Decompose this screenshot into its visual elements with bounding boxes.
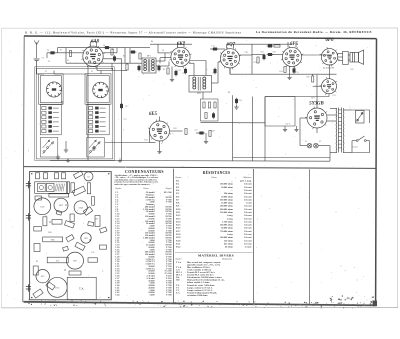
table divider 1 xyxy=(173,169,175,303)
part x3 xyxy=(56,210,62,215)
svg-text:C.S.: C.S. xyxy=(91,252,95,254)
svg-text:M2: M2 xyxy=(95,219,98,221)
svg-text:C2: C2 xyxy=(47,50,50,52)
antenna series capacitor C1 xyxy=(34,59,40,74)
svg-text:300.000 ohms: 300.000 ohms xyxy=(220,209,233,211)
vertical junction wire xyxy=(65,48,67,64)
stub to 6F5 top xyxy=(290,43,292,45)
AVC line xyxy=(201,122,266,124)
stub to bus xyxy=(159,58,161,64)
svg-text:V2: V2 xyxy=(319,141,321,143)
6E5 left wire ext xyxy=(150,142,156,144)
svg-text:1.500 ohms: 1.500 ohms xyxy=(222,221,233,223)
frame right border xyxy=(375,39,378,306)
cathode wire xyxy=(171,67,173,78)
svg-text:C30: C30 xyxy=(272,51,275,53)
rect above TA xyxy=(69,271,81,275)
6F5 top pin2 xyxy=(295,42,297,48)
chassis tube 6Q7 xyxy=(74,201,87,214)
lamp wire 2 xyxy=(318,145,330,147)
vertical to coil 2 xyxy=(129,48,131,64)
resistor R11 xyxy=(257,57,259,63)
box1 to switch xyxy=(87,135,89,138)
antenna to coil box link xyxy=(37,73,44,75)
mains wiring right xyxy=(352,110,370,123)
outer wiring loop 2 xyxy=(35,67,115,161)
tuning gang block xyxy=(35,182,67,194)
6K7 top pin2 xyxy=(183,42,185,48)
gnd wire det xyxy=(205,133,207,139)
coupling wire xyxy=(270,54,282,56)
svg-text:1/4 watt: 1/4 watt xyxy=(244,218,252,220)
osc stub down xyxy=(111,63,113,70)
svg-text:500.000 ohms: 500.000 ohms xyxy=(220,237,233,239)
wire up to bus xyxy=(157,44,159,53)
left can low xyxy=(33,266,38,275)
chassis tube 5Y3 xyxy=(47,277,67,297)
6A8 pin wire down xyxy=(96,66,98,71)
svg-text:Secteur: Secteur xyxy=(352,147,358,149)
stub xyxy=(189,62,194,64)
coil box 2 frame xyxy=(85,74,111,104)
stub down xyxy=(46,53,48,58)
left connector stub 2 xyxy=(26,213,31,220)
flat rect under gang xyxy=(49,194,69,197)
trimmer row L2-3 xyxy=(89,116,106,119)
6A8 top link xyxy=(91,41,97,43)
svg-text:Lampe cadran 6,3 V. 0,3 A.: Lampe cadran 6,3 V. 0,3 A. xyxy=(187,289,213,292)
chassis ground bus xyxy=(50,159,330,162)
6A8 top pin wire 2 xyxy=(96,42,98,47)
primary tap top xyxy=(330,108,337,110)
6A8 plate wire xyxy=(103,52,117,54)
svg-text:1/4 watt: 1/4 watt xyxy=(244,215,252,217)
vertical to B+ xyxy=(251,45,253,75)
scan speckle bottom xyxy=(28,295,377,308)
svg-text:Rappel: Rappel xyxy=(165,188,172,190)
svg-text:C17: C17 xyxy=(123,119,126,121)
output transformer xyxy=(338,51,348,64)
svg-text:C14: C14 xyxy=(211,46,214,48)
svg-text:6E5: 6E5 xyxy=(149,112,158,117)
part x9 xyxy=(63,246,69,251)
stub down xyxy=(299,118,301,128)
svg-text:C33: C33 xyxy=(332,95,335,97)
wire to coil box1 top xyxy=(54,73,88,75)
dial drive xyxy=(84,172,93,181)
can D xyxy=(62,173,66,179)
6K7 aux wire xyxy=(160,57,171,59)
6F5 top pin xyxy=(287,42,289,48)
svg-text:Lampe cadran 6,3 V. 0,3 A.: Lampe cadran 6,3 V. 0,3 A. xyxy=(187,286,213,289)
trimmer row L1-1 xyxy=(42,107,59,110)
svg-text:25.000 ohms: 25.000 ohms xyxy=(221,203,233,205)
resistor R16 xyxy=(312,76,314,82)
link R6 xyxy=(122,70,128,72)
svg-text:T1: T1 xyxy=(45,71,47,73)
svg-text:5Y3: 5Y3 xyxy=(55,286,60,289)
svg-text:R12: R12 xyxy=(173,128,176,130)
can B xyxy=(44,173,48,179)
capacitor C24 xyxy=(235,98,237,105)
heater wiring loop xyxy=(265,97,295,127)
left connector stub 3 xyxy=(26,284,31,291)
svg-text:R4: R4 xyxy=(151,41,153,43)
svg-text:H.P.: H.P. xyxy=(350,69,354,71)
short top wire xyxy=(137,47,150,49)
svg-text:1/4 watt: 1/4 watt xyxy=(244,206,252,208)
bus terminal b xyxy=(119,160,121,162)
wave switch box 2 xyxy=(87,138,105,158)
6E5 right wire xyxy=(170,130,183,132)
frame top border xyxy=(24,36,377,39)
coil L2 xyxy=(93,82,109,98)
resistor R13 top xyxy=(274,45,280,47)
svg-text:ajustables (ondes O.C., P.O.,: ajustables (ondes O.C., P.O., G.O.) xyxy=(187,263,220,266)
svg-text:P 700: P 700 xyxy=(166,295,172,297)
5Y3 left wire xyxy=(300,117,307,119)
svg-text:C17: C17 xyxy=(125,106,128,108)
6Q7 plate wire xyxy=(240,54,253,56)
6A8 grid wire xyxy=(64,52,84,54)
page edge top xyxy=(2,27,399,29)
tube 6K7 xyxy=(169,46,191,68)
HT wire to 5Y3 xyxy=(316,74,318,108)
wave switch box 1 xyxy=(40,138,58,158)
frame left border xyxy=(23,36,24,302)
angled part top right xyxy=(74,171,83,179)
rect bobinage xyxy=(47,257,68,263)
svg-text:1/4 watt: 1/4 watt xyxy=(244,228,252,230)
bus ground 1 xyxy=(56,155,60,159)
scan noise speckle xyxy=(2,40,374,299)
ot to spk xyxy=(348,54,350,56)
svg-text:Repère: Repère xyxy=(175,259,182,261)
svg-text:excitation 1.800 ohms: excitation 1.800 ohms xyxy=(187,295,208,297)
svg-text:500.000 ohms: 500.000 ohms xyxy=(220,225,233,227)
wire up xyxy=(116,48,118,53)
resistor R8 xyxy=(208,102,210,108)
svg-text:1/4 watt: 1/4 watt xyxy=(244,187,252,189)
svg-text:H.P.: H.P. xyxy=(176,280,180,282)
svg-text:Valeur: Valeur xyxy=(143,188,149,190)
mains wiring bottom xyxy=(352,146,370,153)
6K7 top pin xyxy=(177,42,179,48)
wire left of socket xyxy=(313,85,322,87)
socket down wire xyxy=(328,94,330,97)
svg-text:1/2 watt: 1/2 watt xyxy=(244,221,252,223)
trimmer row L2-5 xyxy=(89,125,106,128)
svg-text:C13: C13 xyxy=(220,57,223,59)
trimmer row L1-4 xyxy=(42,120,59,123)
table divider 2 xyxy=(253,169,255,304)
6F5 cathode ground xyxy=(287,75,291,79)
svg-text:E1: E1 xyxy=(36,261,38,263)
svg-text:Désignation: Désignation xyxy=(221,258,232,261)
capacitor C5 xyxy=(113,55,115,62)
page edge left xyxy=(1,28,3,308)
6A8 screen wire xyxy=(103,58,121,60)
MF2 into det block xyxy=(202,92,204,99)
part x1 xyxy=(35,196,42,200)
5Y3 to transformer xyxy=(327,114,337,116)
sec tap 1 xyxy=(343,109,352,111)
mid rect xyxy=(52,220,62,225)
svg-text:MF1: MF1 xyxy=(147,56,151,58)
gang section 1 xyxy=(38,183,46,191)
part x5 xyxy=(100,227,107,233)
link xyxy=(125,47,137,49)
part x8 xyxy=(34,244,40,252)
svg-text:R21: R21 xyxy=(311,98,314,100)
junction drop xyxy=(57,48,59,53)
svg-text:T.A.: T.A. xyxy=(79,286,85,290)
6A8 top pin wire xyxy=(90,42,92,47)
long vertical wire xyxy=(232,95,234,161)
up stub xyxy=(124,48,126,64)
svg-text:Excitation HP: Excitation HP xyxy=(323,68,335,70)
MF1 trimmer cap a xyxy=(184,68,186,75)
part x2 xyxy=(34,227,42,232)
resistor R12 xyxy=(185,129,187,135)
svg-text:males des types courants du co: males des types courants du commerce. xyxy=(115,184,151,186)
ground det xyxy=(204,139,208,143)
trimmer row L1-2 xyxy=(42,111,59,114)
wire 6A8 to feed xyxy=(97,70,122,72)
svg-text:100.000 ohms: 100.000 ohms xyxy=(220,184,233,186)
6Q7 cathode down xyxy=(229,68,231,74)
svg-text:1/4 watt: 1/4 watt xyxy=(244,225,252,227)
capacitor C17 xyxy=(120,103,122,110)
svg-text:prêt. 1 még.: prêt. 1 még. xyxy=(240,180,252,183)
svg-text:Valeur: Valeur xyxy=(211,177,217,179)
chassis layout box xyxy=(30,172,112,300)
drop into box2 xyxy=(100,71,102,74)
svg-text:250 ohms: 250 ohms xyxy=(224,240,233,242)
side can xyxy=(92,196,95,205)
svg-text:L1: L1 xyxy=(67,60,69,62)
angled mid part xyxy=(64,221,74,228)
pilot lamp 2 xyxy=(314,143,319,148)
trimmer row L1-3 xyxy=(42,116,59,119)
bus ground 2 xyxy=(92,146,96,150)
svg-text:C9: C9 xyxy=(184,72,186,74)
capacitor C14 xyxy=(212,48,219,50)
wire over xyxy=(210,48,225,50)
lamp drop xyxy=(329,146,331,153)
wire down to MF2 xyxy=(205,61,207,76)
svg-text:R19: R19 xyxy=(211,131,214,133)
wire from 6Q7 xyxy=(252,54,265,56)
wire to C2 xyxy=(47,52,64,54)
detector block frame xyxy=(201,99,219,121)
svg-text:1/2 watt: 1/2 watt xyxy=(244,240,252,242)
capacitor C20 xyxy=(212,112,214,119)
svg-text:P1: P1 xyxy=(60,50,62,52)
gang hatch xyxy=(55,184,65,192)
tube 6E5 magic eye xyxy=(148,119,171,142)
can C xyxy=(55,173,59,179)
gnd wire xyxy=(65,141,67,148)
capacitor C31 xyxy=(293,67,295,74)
6E5 top wire xyxy=(159,117,161,122)
IF transformer MF1 xyxy=(142,58,156,73)
svg-text:Cond. variable 2×490 cm: Cond. variable 2×490 cm xyxy=(187,268,211,271)
MF1 trimmer b xyxy=(158,65,160,72)
svg-text:1 még.: 1 még. xyxy=(227,214,234,217)
gnd stub h2 xyxy=(296,126,298,127)
output socket bottom view xyxy=(320,77,338,95)
lamp wire xyxy=(300,145,307,147)
heater ground 2 xyxy=(294,127,298,131)
part x6 xyxy=(88,222,94,227)
lamp feed drop xyxy=(299,128,301,146)
top bus right xyxy=(231,43,290,45)
svg-text:5.000: 5.000 xyxy=(149,295,155,297)
table divider 3 xyxy=(309,169,311,304)
svg-text:R14: R14 xyxy=(279,71,282,73)
pilot lamp 1 xyxy=(307,143,312,148)
resistor R10 xyxy=(205,113,207,119)
svg-text:C27: C27 xyxy=(194,130,197,132)
speaker xyxy=(350,50,364,64)
6A8 cathode wire xyxy=(87,66,89,74)
coil box1 top stub xyxy=(53,71,55,74)
6E5 ground xyxy=(157,149,161,153)
box1 stub xyxy=(61,101,63,105)
resistor R2 xyxy=(111,49,113,55)
svg-text:T.S.: T.S. xyxy=(56,260,60,262)
gnd stub h1 xyxy=(284,126,286,127)
chassis circle small xyxy=(36,270,49,283)
svg-text:R5: R5 xyxy=(163,69,165,71)
svg-text:Repère: Repère xyxy=(115,188,122,190)
ot to spk2 xyxy=(348,59,350,61)
stub R16 xyxy=(312,74,314,76)
stub xyxy=(196,132,202,134)
ground under box1 xyxy=(64,148,68,152)
capacitor C12 xyxy=(175,70,177,77)
svg-text:1/4 watt: 1/4 watt xyxy=(244,193,252,195)
6Q7 top pin2 xyxy=(233,44,235,49)
volume feed vertical xyxy=(252,97,254,162)
joint xyxy=(229,73,231,75)
resistor R7 xyxy=(203,102,205,108)
svg-text:R9: R9 xyxy=(228,92,230,94)
wire left long xyxy=(265,96,329,98)
small circle right xyxy=(81,233,91,243)
trimmer row L2-1 xyxy=(89,107,106,110)
MF1 out rise xyxy=(164,53,166,61)
ot tap xyxy=(337,54,339,56)
outer wiring loop xyxy=(36,68,113,159)
AVC drop to bus xyxy=(264,123,266,161)
part x4 xyxy=(70,214,74,222)
sec tap 2 xyxy=(343,152,352,154)
svg-text:6F6: 6F6 xyxy=(326,38,335,43)
5Y3 bottom stub xyxy=(316,128,318,133)
coil L1 xyxy=(46,82,61,97)
page edge right xyxy=(397,28,399,308)
svg-text:6,3 V.: 6,3 V. xyxy=(286,124,291,126)
svg-text:6Q7: 6Q7 xyxy=(227,42,236,47)
svg-text:C12: C12 xyxy=(177,70,180,72)
svg-text:MF2: MF2 xyxy=(197,93,201,95)
svg-text:1/4 watt: 1/4 watt xyxy=(244,209,252,211)
chassis circle BO xyxy=(67,252,84,269)
MF out wire xyxy=(212,82,219,84)
capacitor C27 xyxy=(198,132,205,134)
tube 6F5 xyxy=(281,46,303,68)
6E5 bottom wire xyxy=(159,141,161,150)
svg-text:C22: C22 xyxy=(260,51,263,53)
svg-text:50.000 ohms: 50.000 ohms xyxy=(221,196,233,198)
coil box1 lower components xyxy=(40,105,61,135)
top bus over 6K7 xyxy=(150,43,192,45)
ground C24 xyxy=(234,105,238,109)
svg-text:1 watt: 1 watt xyxy=(246,203,252,205)
capacitor C30 xyxy=(267,53,274,55)
stub up xyxy=(149,131,151,143)
left connector stub 1 xyxy=(26,181,31,188)
svg-text:300.000 ohms: 300.000 ohms xyxy=(220,199,233,201)
svg-text:C4: C4 xyxy=(103,45,105,47)
MF1 trimmer cap b xyxy=(214,68,216,75)
capacitor C2 xyxy=(49,52,56,54)
svg-text:40 ohms: 40 ohms xyxy=(225,247,233,249)
svg-text:T.M.: T.M. xyxy=(50,240,55,242)
power transformer T.A. xyxy=(336,108,344,153)
MF1 trimmer xyxy=(138,65,140,72)
svg-text:C3: C3 xyxy=(48,61,50,63)
svg-text:425 ohms: 425 ohms xyxy=(224,243,233,245)
divider under resistances xyxy=(175,251,253,253)
6Q7 drop xyxy=(229,68,231,74)
svg-text:2 még.: 2 még. xyxy=(227,217,234,220)
svg-text:C24: C24 xyxy=(238,100,241,102)
svg-text:T2: T2 xyxy=(91,71,93,73)
tube 6F6 output xyxy=(320,47,340,67)
MF1 out rise 2 xyxy=(168,62,170,67)
wire 6F5 plate ... xyxy=(302,54,330,56)
second bus segment xyxy=(233,157,330,159)
bus extend xyxy=(101,47,126,49)
svg-text:R13: R13 xyxy=(144,139,147,141)
svg-text:2 watts: 2 watts xyxy=(245,247,252,249)
6K7 grid wire xyxy=(158,52,171,54)
svg-text:1/4 watt: 1/4 watt xyxy=(244,199,252,201)
long wire to MF1 xyxy=(66,62,142,64)
svg-text:50.000 ohms: 50.000 ohms xyxy=(221,187,233,189)
svg-text:T.A.: T.A. xyxy=(176,291,181,294)
angled under xyxy=(75,242,85,250)
6A8 cathode to bus xyxy=(87,74,89,161)
page edge bottom xyxy=(2,307,399,309)
trimmer row L2-4 xyxy=(89,120,106,123)
resistor R6 xyxy=(126,64,128,70)
section divider xyxy=(24,167,377,169)
svg-text:6J: 6J xyxy=(88,176,90,178)
chassis tube 6K7 xyxy=(54,198,68,212)
svg-text:R2: R2 xyxy=(112,49,114,51)
svg-text:1/4 watt: 1/4 watt xyxy=(244,234,252,236)
chassis tube 6A8 xyxy=(34,198,51,215)
joint MF1 xyxy=(141,62,143,64)
right can xyxy=(95,216,100,227)
svg-text:300 ohms: 300 ohms xyxy=(224,193,233,195)
resistor R14 cathode xyxy=(284,67,286,73)
svg-text:C18: C18 xyxy=(244,52,247,54)
